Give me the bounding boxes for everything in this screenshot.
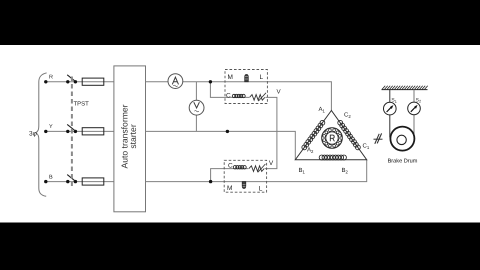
svg-text:R: R — [49, 75, 53, 81]
svg-text:C: C — [226, 93, 231, 100]
svg-text:starter: starter — [128, 124, 138, 148]
svg-text:Brake Drum: Brake Drum — [388, 157, 418, 164]
svg-text:TPST: TPST — [74, 101, 90, 108]
svg-text:M: M — [228, 74, 233, 81]
svg-text:L: L — [259, 185, 263, 192]
svg-text:V: V — [269, 160, 274, 167]
svg-text:3φ: 3φ — [29, 131, 37, 138]
svg-text:C: C — [228, 162, 233, 169]
svg-text:M: M — [227, 185, 232, 192]
svg-text:L: L — [260, 74, 264, 81]
svg-text:B: B — [49, 174, 53, 180]
svg-text:Y: Y — [49, 124, 53, 130]
